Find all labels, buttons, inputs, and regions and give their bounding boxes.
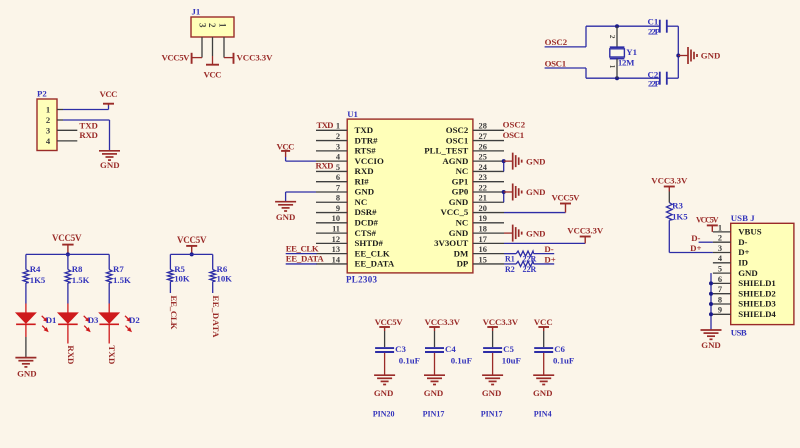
U1 pin 3 stub — [316, 150, 347, 152]
ground (C3) — [374, 375, 395, 398]
wire pin15 DP left — [504, 263, 516, 265]
svg-text:DCD#: DCD# — [355, 218, 379, 228]
svg-text:PIN17: PIN17 — [423, 410, 445, 419]
U1 pin 13 stub — [316, 253, 347, 255]
svg-text:1: 1 — [608, 65, 617, 69]
junction shield pin 7 — [709, 292, 713, 296]
svg-text:24: 24 — [479, 163, 488, 172]
P2 pin 4 stub — [57, 140, 77, 142]
svg-text:EE_CLK: EE_CLK — [355, 248, 390, 258]
wire OSC2 — [545, 26, 660, 47]
svg-text:R7: R7 — [113, 264, 124, 274]
svg-text:ID: ID — [738, 258, 748, 268]
power VCC3.3V (R3) — [651, 175, 688, 191]
wire D- to pin2 — [699, 241, 713, 243]
U1 pin 8 stub — [316, 201, 347, 203]
connector P2 — [37, 89, 57, 151]
LED D3 anode lead — [67, 304, 69, 313]
svg-text:2: 2 — [207, 23, 217, 28]
svg-text:3: 3 — [336, 142, 340, 151]
svg-text:VCC3.3V: VCC3.3V — [425, 317, 461, 327]
wire VCC to pin4 — [286, 157, 316, 161]
wire D3 down — [67, 324, 69, 343]
svg-text:USB J: USB J — [731, 213, 756, 223]
connector J1 — [191, 7, 234, 38]
wire R1 to D- — [534, 253, 555, 255]
svg-text:VCC5V: VCC5V — [552, 193, 581, 203]
LED D1 anode lead — [25, 304, 27, 313]
wire rail to R at x25.9 — [25, 254, 27, 269]
wire D2 down — [108, 324, 110, 343]
svg-text:Y1: Y1 — [626, 47, 637, 57]
junction at pin22 — [502, 190, 506, 194]
svg-text:27: 27 — [479, 132, 487, 141]
svg-text:VCC_5: VCC_5 — [440, 207, 468, 217]
svg-text:12: 12 — [332, 235, 340, 244]
svg-text:D-: D- — [544, 244, 553, 254]
junction pullup rail — [190, 252, 194, 256]
svg-text:9: 9 — [336, 204, 340, 213]
svg-text:VCC5V: VCC5V — [696, 215, 719, 224]
svg-text:D+: D+ — [690, 243, 701, 253]
U1 pin 5 stub — [316, 170, 347, 172]
svg-text:18: 18 — [479, 225, 487, 234]
wire R to LED — [67, 283, 69, 304]
svg-text:20: 20 — [479, 204, 487, 213]
svg-text:1.5K: 1.5K — [72, 275, 90, 285]
svg-text:D-: D- — [738, 237, 747, 247]
svg-text:GP0: GP0 — [452, 187, 469, 197]
wire P2 pin2 right — [63, 119, 110, 121]
wire to GND (crystal) — [678, 55, 688, 57]
junction crystal bottom — [615, 76, 619, 80]
svg-text:22: 22 — [479, 183, 487, 192]
svg-text:EE_DATA: EE_DATA — [211, 296, 221, 339]
svg-text:DM: DM — [454, 248, 469, 258]
svg-text:VCC5V: VCC5V — [375, 317, 404, 327]
svg-text:NC: NC — [355, 197, 368, 207]
ground (C5) — [482, 375, 503, 398]
resistor R4 1K5 — [23, 270, 29, 284]
svg-text:22P: 22P — [648, 78, 661, 88]
wire up to VCC — [108, 106, 110, 110]
wire VCC5V to C3 — [384, 331, 386, 347]
power VCC5V (LEDs) — [52, 233, 82, 255]
junction crystal top — [615, 24, 619, 28]
U1 pin 27 stub — [473, 140, 504, 142]
svg-text:R3: R3 — [672, 201, 683, 211]
svg-text:VCC3.3V: VCC3.3V — [237, 53, 274, 63]
svg-text:VCC5V: VCC5V — [52, 233, 82, 243]
wire VCC3.3V to R3 — [668, 192, 670, 203]
LED D2 anode lead — [108, 304, 110, 313]
wire pin18 to GND — [504, 232, 513, 234]
svg-text:9: 9 — [718, 306, 722, 315]
svg-text:R1: R1 — [505, 255, 515, 264]
svg-text:8: 8 — [336, 194, 340, 203]
svg-text:2: 2 — [608, 35, 617, 39]
svg-text:OSC2: OSC2 — [503, 120, 526, 130]
junction at pin25 — [502, 159, 506, 163]
wire J1 pin1 to VCC3.3V — [224, 57, 234, 59]
wire D+ to pin3 — [669, 252, 713, 254]
power VCC (C6) — [534, 317, 553, 331]
power VCC3.3V (C4) — [425, 317, 461, 331]
wire shield bus — [710, 273, 712, 330]
ground (P2) — [99, 151, 120, 170]
wire OSC1 — [545, 68, 660, 78]
crystal Y1 — [608, 26, 625, 78]
U1 pin 19 stub — [473, 222, 504, 224]
svg-text:GND: GND — [276, 212, 296, 222]
svg-text:23: 23 — [479, 173, 487, 182]
svg-text:12M: 12M — [618, 57, 635, 67]
power VCC5V (pullups) — [177, 235, 207, 254]
svg-text:R2: R2 — [505, 265, 515, 274]
power VCC3.3V (J1) — [234, 53, 274, 64]
junction LED rail — [66, 252, 70, 256]
USB pin 9 stub — [713, 313, 731, 315]
connector USB J body — [731, 213, 794, 325]
svg-text:GND: GND — [355, 187, 375, 197]
svg-text:TXD: TXD — [317, 120, 334, 130]
resistor R1 22R — [516, 251, 533, 256]
U1 pin 12 stub — [316, 242, 347, 244]
svg-text:26: 26 — [479, 142, 487, 151]
svg-text:16: 16 — [479, 245, 487, 254]
svg-text:VCC3.3V: VCC3.3V — [567, 225, 604, 235]
wire D1 to GND — [25, 324, 27, 357]
wire VCC3.3V to C4 — [434, 331, 436, 347]
svg-text:C5: C5 — [503, 344, 514, 354]
svg-text:GND: GND — [526, 156, 546, 166]
USB pin 4 stub — [713, 262, 731, 264]
resistor R8 1.5K — [65, 270, 71, 284]
svg-text:2: 2 — [46, 115, 50, 125]
U1 pin 9 stub — [316, 212, 347, 214]
capacitor C3 0.1uF — [375, 348, 394, 352]
resistor R3 1K5 — [667, 203, 673, 221]
svg-text:0.1uF: 0.1uF — [553, 356, 574, 366]
svg-text:25: 25 — [479, 153, 487, 162]
svg-text:6: 6 — [718, 275, 722, 284]
J1 pin 1 stub — [223, 37, 225, 58]
power VCC3.3V (pin17) — [567, 225, 604, 243]
svg-text:TXD: TXD — [107, 345, 117, 364]
svg-text:RXD: RXD — [316, 161, 334, 171]
USB pin 5 stub — [713, 272, 731, 274]
wire EE_CLK (pin13) — [286, 253, 317, 255]
power VCC5V (C3) — [375, 317, 404, 331]
svg-text:VCCIO: VCCIO — [355, 156, 384, 166]
wire LED rail — [26, 253, 109, 255]
svg-text:10K: 10K — [217, 273, 233, 283]
svg-text:1: 1 — [336, 122, 340, 131]
svg-text:NC: NC — [456, 218, 469, 228]
ground (C4) — [424, 375, 445, 398]
svg-text:RI#: RI# — [355, 176, 370, 186]
svg-text:GP1: GP1 — [452, 176, 469, 186]
svg-text:TXD: TXD — [79, 120, 98, 130]
svg-text:U1: U1 — [347, 109, 358, 119]
wire pins 25-24 join — [503, 161, 505, 171]
svg-text:3: 3 — [198, 23, 208, 28]
svg-text:11: 11 — [332, 225, 340, 234]
USB pin 2 stub — [713, 241, 731, 243]
wire C5 to GND — [492, 353, 494, 375]
capacitor C6 0.1uF — [534, 348, 553, 352]
svg-text:3: 3 — [46, 125, 50, 135]
wire C6 to GND — [543, 353, 545, 375]
capacitor C2 22P — [648, 69, 667, 88]
svg-text:15: 15 — [479, 255, 487, 264]
svg-text:10uF: 10uF — [502, 356, 521, 366]
svg-text:0.1uF: 0.1uF — [399, 356, 420, 366]
svg-text:RXD: RXD — [355, 166, 374, 176]
USB pin 8 stub — [713, 303, 731, 305]
resistor R2 22R — [516, 261, 533, 266]
svg-text:1: 1 — [218, 23, 228, 28]
svg-text:EE_DATA: EE_DATA — [286, 254, 325, 264]
svg-text:19: 19 — [479, 214, 487, 223]
ground (pins 25-24) — [513, 153, 546, 170]
wire C4 to GND — [434, 353, 436, 375]
svg-text:VCC: VCC — [277, 141, 295, 151]
svg-text:1.5K: 1.5K — [113, 275, 131, 285]
svg-text:0.1uF: 0.1uF — [451, 356, 472, 366]
USB pin 3 stub — [713, 252, 731, 254]
wire pin25 to GND — [504, 160, 513, 162]
svg-text:22R: 22R — [523, 255, 537, 264]
ground (D1) — [15, 358, 36, 379]
svg-text:OSC2: OSC2 — [545, 37, 568, 47]
U1 pin 24 stub — [473, 170, 504, 172]
wire R to LED — [108, 283, 110, 304]
svg-text:PLL_TEST: PLL_TEST — [424, 146, 468, 156]
junction shield pin 9 — [709, 312, 713, 316]
wire C1 right — [667, 25, 679, 27]
ground (crystal) — [688, 47, 720, 64]
wire right rail — [677, 26, 679, 78]
wire pin17 3V3OUT — [504, 242, 585, 244]
svg-text:6: 6 — [336, 173, 340, 182]
resistor R5 10K — [168, 270, 174, 282]
U1 pin 4 stub — [316, 160, 347, 162]
U1 pin 11 stub — [316, 232, 347, 234]
resistor R6 10K — [210, 270, 216, 282]
power VCC5V (J1) — [162, 53, 192, 64]
wire rail to R at x109.2 — [108, 254, 110, 269]
capacitor C4 0.1uF — [425, 348, 444, 352]
power VCC5V (pin20) — [552, 193, 581, 213]
U1 pin 14 stub — [316, 263, 347, 265]
power VCC (J1) — [204, 65, 222, 80]
svg-text:22R: 22R — [523, 265, 537, 274]
wire pin22 to GND — [504, 191, 513, 193]
U1 pin 22 stub — [473, 191, 504, 193]
svg-text:VCC3.3V: VCC3.3V — [651, 175, 688, 185]
svg-text:EE_CLK: EE_CLK — [169, 296, 179, 330]
wire P2 pin1 to VCC — [63, 109, 109, 111]
svg-text:GND: GND — [100, 160, 120, 170]
svg-text:4: 4 — [46, 136, 51, 146]
svg-text:GND: GND — [449, 228, 469, 238]
svg-text:D+: D+ — [544, 255, 555, 265]
svg-text:VCC: VCC — [100, 89, 118, 99]
J1 pin 3 stub — [201, 37, 203, 58]
svg-text:SHIELD3: SHIELD3 — [738, 299, 776, 309]
svg-text:PIN4: PIN4 — [534, 410, 552, 419]
svg-text:13: 13 — [332, 245, 340, 254]
U1 pin 23 stub — [473, 181, 504, 183]
svg-text:DSR#: DSR# — [355, 207, 378, 217]
svg-text:VBUS: VBUS — [738, 227, 762, 237]
svg-text:RXD: RXD — [79, 130, 98, 140]
svg-text:D1: D1 — [46, 315, 57, 325]
capacitor C5 10uF — [483, 348, 502, 352]
svg-text:VCC5V: VCC5V — [177, 235, 207, 245]
svg-text:VCC: VCC — [204, 70, 222, 80]
USB pin 7 stub — [713, 293, 731, 295]
svg-text:7: 7 — [336, 183, 340, 192]
svg-text:3: 3 — [718, 244, 722, 253]
svg-text:DTR#: DTR# — [355, 135, 379, 145]
power VCC5V (USB) — [696, 215, 719, 232]
svg-text:EE_CLK: EE_CLK — [286, 243, 319, 253]
svg-text:5: 5 — [336, 163, 340, 172]
svg-text:2: 2 — [336, 132, 340, 141]
svg-text:NC: NC — [456, 166, 469, 176]
svg-text:OSC1: OSC1 — [503, 130, 524, 140]
wire EE_DATA (pin14) — [286, 263, 317, 265]
svg-text:GND: GND — [424, 388, 444, 398]
U1 pin 7 stub — [316, 191, 347, 193]
wire pin20 VCC_5 — [504, 212, 566, 214]
U1 pin 25 stub — [473, 160, 504, 162]
U1 pin 1 stub — [316, 129, 347, 131]
wire rail to R at x67.9 — [67, 254, 69, 269]
wire VCC3.3V to C5 — [492, 331, 494, 347]
U1 pin 18 stub — [473, 232, 504, 234]
svg-text:VCC: VCC — [534, 317, 553, 327]
svg-text:RXD: RXD — [66, 345, 76, 364]
svg-text:C3: C3 — [395, 344, 406, 354]
svg-text:22P: 22P — [648, 26, 661, 36]
svg-text:PIN20: PIN20 — [373, 410, 395, 419]
LED D2 — [99, 313, 132, 332]
svg-text:PL2303: PL2303 — [346, 275, 378, 285]
P2 pin 1 stub — [57, 109, 63, 111]
op-amp U1 PL2303 body — [347, 109, 473, 273]
U1 pin 28 stub — [473, 129, 504, 131]
svg-text:EE_DATA: EE_DATA — [355, 259, 395, 269]
P2 pin 3 stub — [57, 129, 77, 131]
svg-text:GND: GND — [482, 388, 502, 398]
svg-text:3V3OUT: 3V3OUT — [434, 238, 468, 248]
USB pin 1 stub — [713, 231, 731, 233]
svg-text:GND: GND — [526, 228, 546, 238]
junction shield pin 6 — [709, 281, 713, 285]
svg-text:D+: D+ — [738, 247, 749, 257]
ground (pins 22-21) — [513, 183, 546, 200]
svg-text:J1: J1 — [192, 7, 201, 17]
svg-text:DP: DP — [457, 259, 469, 269]
U1 pin 17 stub — [473, 242, 504, 244]
LED D1 — [16, 313, 49, 332]
U1 pin 10 stub — [316, 222, 347, 224]
wire P2 pin2 down — [109, 120, 111, 151]
svg-text:10K: 10K — [174, 273, 190, 283]
svg-text:VCC5V: VCC5V — [162, 53, 191, 63]
wire R6 down — [212, 282, 214, 294]
svg-text:USB: USB — [731, 327, 747, 337]
svg-text:GND: GND — [738, 268, 758, 278]
U1 pin 26 stub — [473, 150, 504, 152]
wire R to LED — [25, 283, 27, 304]
svg-text:P2: P2 — [37, 89, 47, 99]
svg-text:SHIELD1: SHIELD1 — [738, 278, 776, 288]
resistor R7 1.5K — [106, 270, 112, 284]
capacitor C1 22P — [648, 16, 667, 36]
wire pin16 DM left — [504, 253, 516, 255]
svg-text:7: 7 — [718, 285, 722, 294]
U1 pin 6 stub — [316, 181, 347, 183]
wire rail to R5 — [169, 254, 171, 269]
wire R3 down — [668, 220, 670, 252]
svg-text:OSC2: OSC2 — [446, 125, 469, 135]
svg-text:GND: GND — [449, 197, 469, 207]
junction right rail — [676, 54, 680, 58]
svg-text:GND: GND — [17, 369, 36, 379]
svg-text:17: 17 — [479, 235, 487, 244]
svg-text:TXD: TXD — [355, 125, 374, 135]
junction shield pin 8 — [709, 302, 713, 306]
U1 pin 15 stub — [473, 263, 504, 265]
wire rail to R6 — [212, 254, 214, 269]
svg-text:GND: GND — [533, 388, 553, 398]
J1 pin 2 stub — [212, 37, 214, 56]
U1 pin 21 stub — [473, 201, 504, 203]
ground (C6) — [533, 375, 554, 398]
svg-text:PIN17: PIN17 — [481, 410, 503, 419]
svg-text:GND: GND — [701, 51, 721, 61]
svg-text:28: 28 — [479, 122, 487, 131]
ground (USB) — [701, 330, 722, 350]
svg-text:R8: R8 — [72, 264, 83, 274]
U1 pin 20 stub — [473, 212, 504, 214]
wire GND to pin7 — [286, 192, 316, 202]
svg-text:8: 8 — [718, 295, 722, 304]
svg-text:OSC1: OSC1 — [545, 59, 567, 69]
svg-text:SHIELD2: SHIELD2 — [738, 288, 776, 298]
svg-text:SHIELD4: SHIELD4 — [738, 309, 776, 319]
wire VCC to C6 — [543, 331, 545, 347]
svg-text:CTS#: CTS# — [355, 228, 377, 238]
wire pins 22-21 join — [503, 192, 505, 202]
svg-text:GND: GND — [701, 340, 721, 350]
svg-text:OSC1: OSC1 — [446, 135, 469, 145]
svg-text:2: 2 — [718, 234, 722, 243]
ground (U1 left) — [275, 202, 296, 222]
svg-text:21: 21 — [479, 194, 487, 203]
P2 pin 2 stub — [57, 119, 63, 121]
svg-text:VCC3.3V: VCC3.3V — [483, 317, 519, 327]
svg-text:C6: C6 — [554, 344, 565, 354]
svg-text:1K5: 1K5 — [30, 275, 46, 285]
svg-text:RTS#: RTS# — [355, 146, 377, 156]
USB pin 6 stub — [713, 282, 731, 284]
svg-text:D-: D- — [691, 233, 700, 243]
